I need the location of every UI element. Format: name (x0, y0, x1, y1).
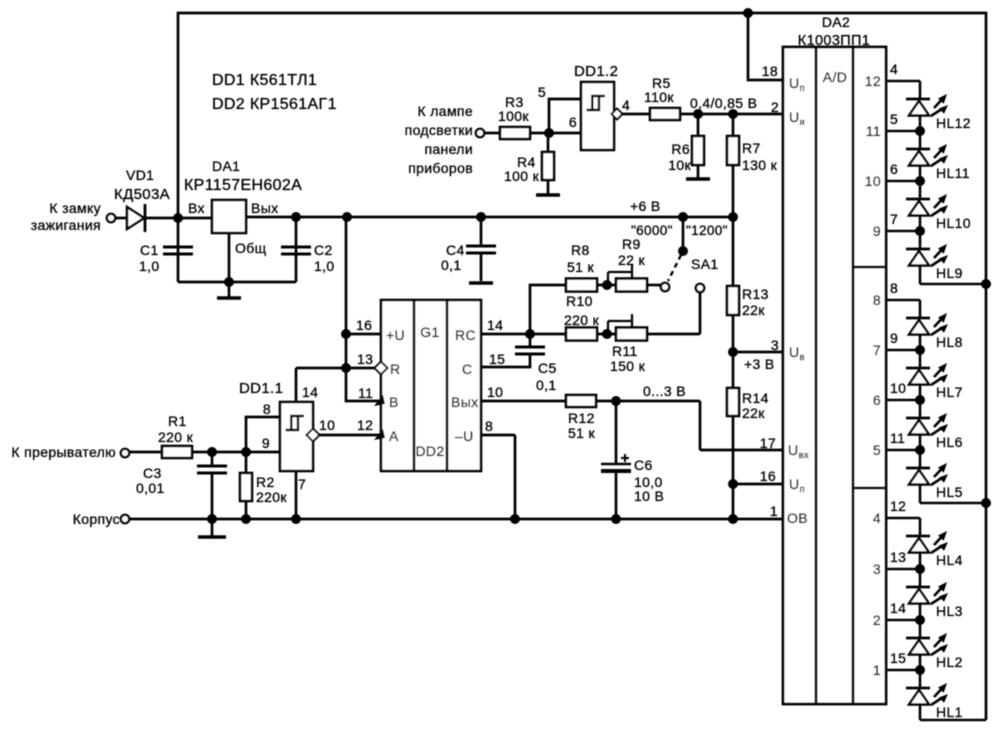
svg-text:10: 10 (865, 173, 881, 189)
svg-text:R13: R13 (742, 286, 769, 302)
junction top rail / DA2 pin 18 branch (743, 8, 753, 18)
svg-text:C2: C2 (314, 242, 333, 258)
wire +6V rail from DA1 Вых (246, 216, 733, 219)
junction RC / C5 / R8 (525, 329, 535, 339)
junction pin 7 / ground rail (291, 514, 301, 524)
junction LED tap pin 13 (915, 564, 925, 574)
svg-text:7: 7 (890, 211, 898, 227)
svg-text:R1: R1 (168, 413, 187, 429)
svg-text:4: 4 (873, 510, 881, 526)
junction +3В node (728, 347, 738, 357)
junction R2 / pin8 branch (241, 447, 251, 457)
svg-text:–U: –U (455, 428, 474, 444)
svg-text:зажигания: зажигания (31, 217, 101, 233)
A input edge arrow DD2 pin 12 (374, 429, 385, 440)
junction anode rail (981, 279, 991, 289)
timer DD2 КР1561АГ1 (G1) (381, 300, 481, 471)
junction LED tap pin 14 (915, 615, 925, 625)
svg-text:8: 8 (263, 401, 271, 417)
resistor R8 51 к (566, 279, 597, 292)
svg-text:12: 12 (357, 417, 373, 433)
wire R8 to R9 (597, 284, 616, 287)
svg-text:1,0: 1,0 (139, 258, 160, 274)
svg-text:A/D: A/D (823, 69, 847, 85)
svg-text:220 к: 220 к (564, 312, 600, 328)
output inversion diamond DD1.2 pin 4 (612, 109, 623, 120)
junction anode rail (981, 498, 991, 508)
resistor R10 220 к (566, 328, 597, 341)
svg-text:3: 3 (771, 337, 779, 353)
svg-text:C6: C6 (634, 457, 653, 473)
svg-text:10: 10 (319, 417, 335, 433)
junction C3 / rail (207, 514, 217, 524)
wire R7 top stem (732, 114, 735, 136)
junction R8/R9 wiper (602, 280, 612, 290)
LED HL12 (919, 81, 922, 99)
svg-text:DD2 КР1561АГ1: DD2 КР1561АГ1 (212, 96, 337, 113)
svg-text:16: 16 (356, 317, 372, 333)
junction LED tap pin 5 (915, 126, 925, 136)
junction ground rail / DA2 (728, 514, 738, 524)
svg-text:15: 15 (890, 650, 906, 666)
svg-text:100 к: 100 к (504, 168, 540, 184)
wire branch to DD1.1 pin 8 (246, 417, 280, 452)
svg-text:6: 6 (569, 114, 577, 130)
wire R2 bottom stem (245, 501, 248, 519)
svg-text:панели: панели (424, 141, 473, 157)
junction LED tap pin 6 (915, 176, 925, 186)
svg-text:К1003ПП1: К1003ПП1 (798, 33, 870, 49)
svg-text:R11: R11 (612, 343, 638, 359)
wire R7 bottom stem (732, 165, 735, 217)
wire +6V to R13 (732, 217, 735, 286)
svg-text:13: 13 (357, 351, 373, 367)
svg-text:Общ: Общ (235, 240, 267, 256)
svg-text:100к: 100к (498, 108, 529, 124)
wire R9 to SA1 contact (647, 284, 661, 287)
wire R3 to DD1.2 pin 6 (530, 132, 581, 135)
svg-text:HL10: HL10 (936, 215, 971, 231)
wire R11 to SA1 contact2 (647, 333, 700, 336)
ground under R6 (686, 177, 710, 180)
svg-text:R: R (390, 361, 400, 377)
svg-text:0,1: 0,1 (536, 377, 557, 393)
wire LED chain bottom to anode rail (920, 283, 986, 286)
wire SA1 contact2 down to R11 (699, 292, 702, 334)
switch SA1 wiper (dashed) (668, 255, 681, 281)
svg-text:R9: R9 (622, 236, 641, 252)
svg-text:HL7: HL7 (936, 384, 963, 400)
svg-text:DD1.1: DD1.1 (239, 380, 283, 397)
voltage regulator DA1 КР1157ЕН602А (212, 200, 246, 233)
wire top supply rail from VD1 node to LED anode rail (178, 13, 986, 720)
junction R6 top (693, 109, 703, 119)
svg-text:7: 7 (873, 342, 881, 358)
wire DA2 output pin 15 (886, 669, 920, 672)
svg-text:Вх: Вх (188, 200, 205, 216)
svg-text:4: 4 (622, 97, 630, 113)
wire DD2 pin 13 (346, 367, 375, 370)
svg-text:5: 5 (873, 442, 881, 458)
wire R10 to R11 (597, 333, 616, 336)
resistor R13 22к (727, 286, 739, 315)
op-amp (Schmitt trigger) DD1.1 К561ТЛ1 (280, 402, 313, 471)
wire to DD1.1 pin 14 (296, 368, 346, 402)
op-amp (Schmitt trigger) DD1.2 К561ТЛ1 (581, 82, 614, 150)
wire DA2 output pin 8 (886, 299, 920, 302)
svg-text:6: 6 (890, 161, 898, 177)
svg-text:220 к: 220 к (158, 429, 194, 445)
svg-text:+3 В: +3 В (744, 356, 775, 372)
LED HL5 (919, 450, 922, 468)
svg-text:110к: 110к (644, 89, 674, 105)
junction DA1 out / C2 (291, 212, 301, 222)
svg-text:2: 2 (873, 612, 881, 628)
wire common bottom of C1 C2 Общ (178, 281, 296, 284)
svg-text:10к: 10к (668, 157, 691, 173)
svg-text:9: 9 (262, 435, 270, 451)
svg-text:51 к: 51 к (568, 425, 596, 441)
svg-text:G1: G1 (420, 324, 439, 340)
svg-text:150 к: 150 к (610, 358, 646, 374)
capacitor C1 1,0 (163, 247, 193, 254)
junction R3/R4/pin5 node (544, 128, 554, 138)
capacitor C4 0,1 (466, 246, 496, 253)
wire interrupter input line (129, 451, 280, 454)
resistor R3 100к (500, 127, 530, 139)
svg-text:12: 12 (865, 73, 881, 89)
resistor R7 130 к (727, 136, 739, 165)
svg-text:приборов: приборов (408, 160, 473, 176)
svg-text:C: C (462, 361, 472, 377)
svg-text:51 к: 51 к (567, 259, 595, 275)
svg-text:8: 8 (485, 418, 493, 434)
terminal Корпус (121, 515, 129, 523)
LED HL6 (919, 400, 922, 418)
svg-text:HL6: HL6 (936, 434, 963, 450)
wire DA2 pin 18 (Uп) feed (748, 13, 783, 80)
wire C2 branch (295, 217, 298, 282)
svg-text:13: 13 (890, 549, 906, 565)
resistor R5 110к (650, 108, 680, 120)
svg-text:HL5: HL5 (936, 484, 963, 500)
wire DD2 -U pin 8 to ground rail (481, 435, 515, 519)
svg-text:14: 14 (302, 384, 318, 400)
svg-text:+U: +U (386, 327, 405, 343)
svg-text:10: 10 (890, 380, 906, 396)
svg-text:15: 15 (489, 351, 505, 367)
capacitor C2 1,0 (281, 247, 311, 254)
svg-text:2: 2 (771, 99, 779, 115)
wire DD1.1 pin 7 to ground (295, 471, 298, 519)
svg-text:11: 11 (890, 430, 905, 446)
wire DA2 pin 3 Uв (733, 351, 783, 354)
wire DA2 output pin 11 (886, 449, 920, 452)
svg-text:C1: C1 (140, 242, 159, 258)
wire input terminal to VD1 (115, 217, 127, 220)
junction C3 top (207, 447, 217, 457)
svg-text:8: 8 (873, 292, 881, 308)
svg-text:6: 6 (873, 392, 881, 408)
wire DD2 Вых / 0...3В to DA2 pin 17 (481, 401, 783, 450)
svg-text:22 к: 22 к (618, 252, 646, 268)
junction Общ ground node (224, 277, 234, 287)
svg-text:12: 12 (890, 498, 906, 514)
svg-text:11: 11 (866, 123, 881, 139)
resistor R6 10к (692, 136, 704, 165)
wire DA2 output pin 14 (886, 619, 920, 622)
trimmer resistor R9 22 к (616, 279, 647, 292)
wire DA2 pin 16 Uп (733, 483, 783, 486)
svg-text:DD2: DD2 (415, 443, 444, 459)
LED driver DA2 К1003ПП1 (783, 47, 886, 704)
svg-text:14: 14 (890, 600, 906, 616)
capacitor C5 0,1 (515, 347, 545, 354)
svg-text:Корпус: Корпус (73, 511, 120, 527)
svg-text:16: 16 (760, 468, 776, 484)
wire branch to DD1.2 pin 5 (549, 99, 581, 133)
ground under C3 (198, 535, 226, 538)
wire R5 to DA2 pin 2 (680, 113, 783, 116)
svg-text:HL11: HL11 (936, 165, 970, 181)
wire DA2 output pin 10 (886, 399, 920, 402)
LED HL2 (919, 620, 922, 638)
junction LED tap pin 15 (915, 665, 925, 675)
junction R12 / C6 (611, 396, 621, 406)
svg-text:1: 1 (770, 503, 778, 519)
wire DA2 output pin 5 (886, 130, 920, 133)
diode VD1 КД503А (127, 207, 144, 229)
wire C5 bottom to DD2 pin 15 (481, 354, 530, 367)
svg-text:КД503А: КД503А (114, 186, 170, 203)
svg-text:14: 14 (487, 317, 503, 333)
wire ground rail Корпус to DA2 ОВ (129, 518, 783, 521)
wire LED chain bottom to anode rail (920, 719, 986, 722)
svg-text:HL8: HL8 (936, 334, 963, 350)
wire DA2 output pin 6 (886, 180, 920, 183)
LED HL1 (919, 670, 922, 688)
junction R10/R11 wiper (602, 329, 612, 339)
svg-text:R8: R8 (571, 242, 590, 258)
junction +6V / SA1 pole (678, 212, 688, 222)
svg-text:К замку: К замку (49, 200, 101, 216)
wire SA1 pole stem (682, 217, 685, 251)
wire VD1 to DA1 Вх (145, 217, 212, 220)
terminal К замку зажигания (107, 214, 115, 222)
svg-text:8: 8 (890, 280, 898, 296)
LED HL3 (919, 569, 922, 587)
svg-text:КР1157ЕН602А: КР1157ЕН602А (184, 177, 302, 194)
svg-text:С3: С3 (143, 465, 162, 481)
wire R4 bottom stem (547, 180, 550, 194)
wire DA2 output pin 13 (886, 568, 920, 571)
svg-text:VD1: VD1 (126, 167, 154, 183)
SA1 pole contact (678, 246, 688, 256)
junction +6V / C4 (476, 212, 486, 222)
wire DD2 pin 16 (346, 333, 381, 336)
wire C5 top stem (529, 334, 532, 347)
wire DA2 output pin 4 (886, 80, 920, 83)
ground under R4 (536, 193, 560, 196)
wire C4 top (480, 217, 483, 246)
resistor R1 220 к (162, 446, 192, 458)
junction LED tap pin 11 (915, 445, 925, 455)
junction LED tap pin 7 (915, 226, 925, 236)
svg-text:R6: R6 (671, 141, 690, 157)
svg-text:HL1: HL1 (936, 704, 963, 720)
wire C1 branch (177, 218, 180, 282)
junction C6 / rail (611, 514, 621, 524)
LED HL8 (919, 300, 922, 318)
wire DD2 RC to R10 (481, 333, 566, 336)
trimmer resistor R11 150 к (616, 328, 647, 341)
svg-text:HL4: HL4 (936, 552, 963, 568)
terminal К лампе (476, 129, 484, 137)
LED HL10 (919, 181, 922, 199)
wire ground stem DA1 (228, 282, 231, 297)
wire C4 bottom stem (480, 253, 483, 281)
LED HL4 (919, 518, 922, 536)
svg-text:10: 10 (487, 384, 503, 400)
wire R13 bottom (732, 315, 735, 352)
svg-text:HL3: HL3 (936, 603, 963, 619)
wire DA2 output pin 7 (886, 230, 920, 233)
svg-text:7: 7 (298, 476, 306, 492)
svg-text:R12: R12 (568, 410, 595, 426)
junction pin 16 branch (341, 329, 351, 339)
svg-text:B: B (389, 394, 399, 410)
ground under DA1 (217, 296, 241, 299)
wire R2 top stem (245, 452, 248, 473)
svg-text:R2: R2 (256, 474, 275, 490)
svg-text:22к: 22к (742, 302, 765, 318)
svg-text:11: 11 (358, 385, 373, 401)
svg-text:4: 4 (890, 61, 898, 77)
wire DD1.1 out to DD2 pin 12 (320, 434, 382, 437)
wire R4 top (547, 133, 550, 152)
svg-text:0,4/0,85 В: 0,4/0,85 В (690, 95, 757, 111)
junction DD2 -U / rail (510, 514, 520, 524)
svg-text:DD1.2: DD1.2 (574, 63, 618, 80)
resistor R14 22к (727, 388, 739, 416)
wire LED chain bottom to anode rail (920, 502, 986, 505)
resistor R2 220к (240, 473, 252, 501)
svg-text:220к: 220к (256, 489, 287, 505)
LED HL7 (919, 350, 922, 368)
wire DA1 Общ down (228, 233, 231, 282)
wire RC node up to R8 (530, 285, 566, 334)
wire C3 bottom stem (211, 473, 214, 519)
svg-text:9: 9 (890, 330, 898, 346)
wire R14 bottom to ground rail (732, 416, 735, 519)
svg-text:HL2: HL2 (936, 654, 963, 670)
output diamond DD1.1 pin 10 (307, 429, 320, 442)
B input edge arrow DD2 pin 11 (374, 395, 385, 406)
junction LED tap pin 9 (915, 345, 925, 355)
svg-text:1,0: 1,0 (314, 258, 335, 274)
svg-text:R10: R10 (566, 293, 593, 309)
wire +6V branch to DD2 pins 16/13/11 (346, 217, 381, 401)
wire R14 top (732, 352, 735, 388)
svg-text:18: 18 (762, 63, 778, 79)
svg-text:DA2: DA2 (822, 14, 850, 30)
svg-text:SA1: SA1 (691, 256, 719, 272)
R input diamond DD2 pin 13 (375, 362, 388, 375)
svg-text:"1200": "1200" (686, 223, 728, 238)
svg-text:подсветки: подсветки (405, 122, 473, 138)
svg-text:130 к: 130 к (742, 157, 778, 173)
svg-text:0,01: 0,01 (136, 480, 165, 496)
resistor R4 100 к (542, 152, 554, 180)
wire DD1.2 out to R5 (623, 113, 651, 116)
svg-text:17: 17 (760, 435, 776, 451)
svg-text:0,1: 0,1 (441, 257, 462, 273)
wire DA2 output pin 12 (886, 517, 920, 520)
svg-text:5: 5 (538, 84, 546, 100)
junction R2 / rail (241, 514, 251, 524)
junction +6V / DD-supply branch (342, 212, 352, 222)
svg-text:10 В: 10 В (634, 488, 664, 504)
wire C6 bottom stem (615, 473, 618, 519)
wire R6 top stem (697, 114, 700, 136)
wire R6 bottom stem (697, 165, 700, 178)
resistor R12 51 к (566, 395, 596, 407)
terminal К прерывателю (121, 449, 129, 457)
svg-text:R14: R14 (742, 390, 769, 406)
svg-text:R7: R7 (742, 140, 761, 156)
svg-text:+6 В: +6 В (630, 198, 661, 214)
svg-text:RC: RC (455, 327, 476, 343)
junction pin 13 / DD1 pin14 branch (341, 363, 351, 373)
svg-text:1: 1 (873, 662, 881, 678)
svg-text:0...3 В: 0...3 В (643, 383, 686, 399)
junction +6V / R7-R13 (728, 212, 738, 222)
capacitor C3 0,01 (197, 466, 227, 473)
svg-text:Вых: Вых (451, 394, 478, 410)
junction pin16 branch (728, 479, 738, 489)
wire C3 top stem (211, 452, 214, 466)
svg-text:ОВ: ОВ (787, 510, 808, 526)
svg-text:A: A (389, 428, 399, 444)
wire DA2 output pin 9 (886, 349, 920, 352)
svg-text:DD1 К561ТЛ1: DD1 К561ТЛ1 (212, 72, 317, 89)
wire terminal to R3 (484, 132, 500, 135)
svg-text:DA1: DA1 (212, 158, 240, 174)
LED HL11 (919, 131, 922, 149)
wire ground stem under C3 (211, 519, 214, 536)
junction VD1 node / C1 / top rail (173, 213, 183, 223)
svg-text:HL12: HL12 (936, 115, 971, 131)
ground under C4 (469, 281, 493, 284)
svg-text:HL9: HL9 (936, 265, 963, 281)
svg-text:К лампе: К лампе (418, 103, 473, 119)
junction R7 top (728, 109, 738, 119)
SA1 contact 6000 (661, 283, 669, 291)
svg-text:9: 9 (873, 223, 881, 239)
svg-text:C5: C5 (538, 360, 557, 376)
svg-text:C4: C4 (446, 242, 465, 258)
LED HL9 (919, 231, 922, 249)
wire C6 top stem (615, 401, 618, 464)
svg-text:5: 5 (890, 111, 898, 127)
junction LED tap pin 10 (915, 395, 925, 405)
svg-text:К прерывателю: К прерывателю (11, 444, 116, 460)
SA1 contact 1200 (696, 284, 704, 292)
svg-text:Вых: Вых (251, 200, 278, 216)
svg-text:3: 3 (873, 561, 881, 577)
svg-text:22к: 22к (742, 405, 765, 421)
